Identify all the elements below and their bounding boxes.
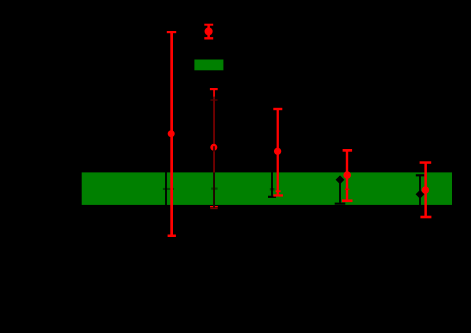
legend red marker entry: bottom cap <box>204 37 213 39</box>
red error bar R3 top cap <box>273 108 282 110</box>
red error bar R4 bottom cap <box>342 199 353 202</box>
black error bar B5 line <box>419 175 421 211</box>
red error bar R2 faint second top cap <box>211 99 218 100</box>
red error bar R1 bottom cap <box>168 235 176 238</box>
node tick P1 (dark tick on band) <box>163 188 174 190</box>
legend red marker entry: line <box>207 25 210 39</box>
red error bar R4 small mid cap <box>345 189 350 190</box>
legend red marker entry: circle <box>205 27 213 35</box>
red marker M5 <box>422 186 429 193</box>
black overlay line over band at P2 <box>213 173 215 208</box>
red error bar R5 bottom cap <box>420 216 431 219</box>
red marker M1 <box>168 130 175 137</box>
black error bar B4 bottom cap <box>335 203 346 205</box>
legend green band entry <box>194 60 223 71</box>
red error bar R2 dark bottom cap <box>210 208 217 209</box>
red marker M4 <box>343 171 351 179</box>
node tick P3 (dark tick on band) <box>270 188 275 191</box>
black diamond marker D5 <box>416 190 425 199</box>
red error bar R5 top cap <box>420 161 432 164</box>
red error bar R2 bottom cap <box>210 206 218 207</box>
black error bar B1 (vertical line over band) <box>165 160 167 220</box>
red error bar R2 bright top stem <box>213 89 215 97</box>
red error bar R2 top cap <box>210 88 218 90</box>
red error bar R1 top cap <box>167 31 176 33</box>
red marker M3 <box>274 148 281 155</box>
red error bar R4 top cap <box>343 149 353 152</box>
green world-average band <box>82 172 452 205</box>
red marker M2 dark notch <box>213 146 215 151</box>
red error bar R5 line <box>424 163 427 218</box>
black diamond marker D4 <box>336 175 345 184</box>
red error bar R3 small mid cap <box>276 190 281 192</box>
node tick P2 (dark tick on band) <box>211 188 218 190</box>
legend red marker entry: top cap <box>204 24 213 26</box>
red error bar R1 line <box>170 31 173 237</box>
black error bar B3 line <box>271 165 273 196</box>
red error bar R2 dark line <box>213 97 215 210</box>
black error bar B3 bottom cap <box>268 196 276 198</box>
red error bar R3 line <box>277 109 279 196</box>
red error bar R3 bottom cap <box>273 194 283 196</box>
black error bar B5 top cap <box>416 174 424 176</box>
black error bar B4 line <box>339 176 341 203</box>
red error bar R4 line <box>346 150 348 202</box>
red marker M2 <box>210 144 217 151</box>
